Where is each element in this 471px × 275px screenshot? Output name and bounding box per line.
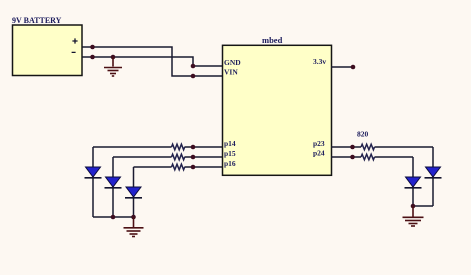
svg-text:GND: GND (224, 58, 241, 67)
svg-text:p16: p16 (224, 159, 236, 168)
svg-text:p14: p14 (224, 139, 236, 148)
svg-text:mbed: mbed (262, 35, 283, 45)
svg-text:p15: p15 (224, 149, 236, 158)
svg-text:820: 820 (357, 130, 369, 139)
svg-text:p23: p23 (313, 139, 325, 148)
svg-text:3.3v: 3.3v (313, 57, 326, 66)
svg-text:VIN: VIN (224, 68, 238, 77)
svg-text:9V BATTERY: 9V BATTERY (12, 16, 62, 25)
svg-text:p24: p24 (313, 149, 325, 158)
